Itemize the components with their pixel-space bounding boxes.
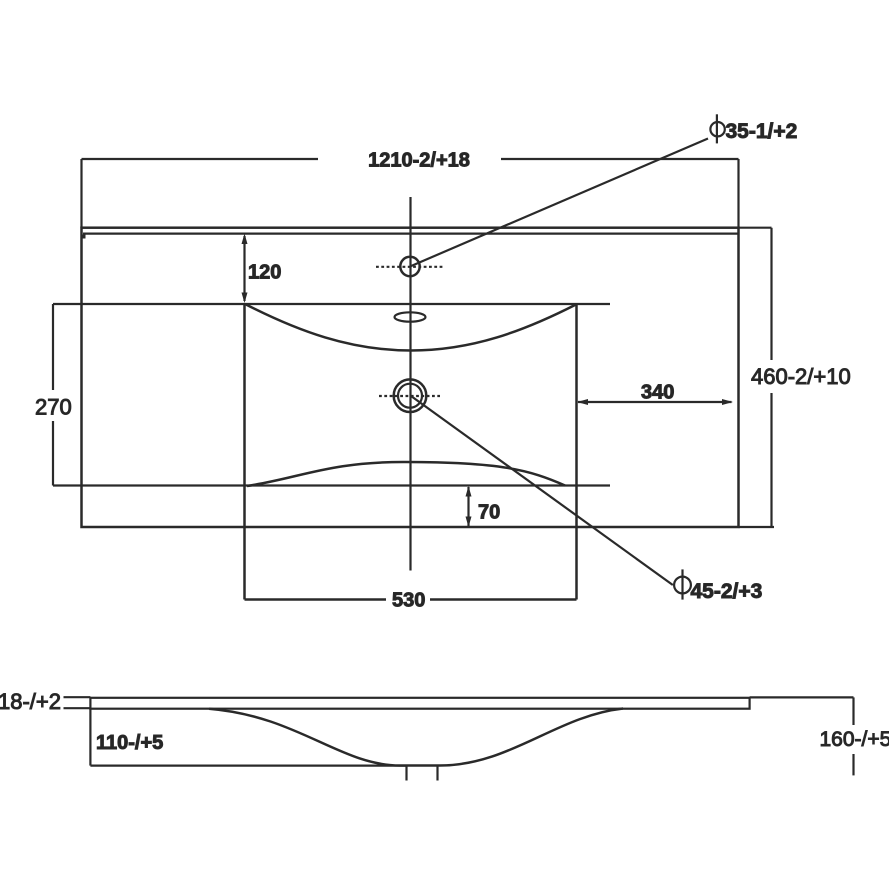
arrow down 70 — [466, 517, 472, 528]
dimension 270 line — [52, 304, 54, 486]
faucet dashed centerline — [376, 266, 443, 268]
svg-text:120: 120 — [248, 262, 281, 284]
arrow up 120 — [242, 234, 248, 245]
dimension 460 bracket — [739, 228, 775, 527]
origin dot left — [82, 235, 86, 239]
dimension 70 line — [467, 487, 469, 526]
basin top wave curve — [246, 305, 576, 351]
svg-text:35-1/+2: 35-1/+2 — [726, 120, 798, 143]
basin bottom straight line / extension — [53, 484, 610, 486]
leader lines for 18 thickness — [64, 696, 91, 698]
phi symbol 45 — [674, 577, 691, 594]
svg-text:270: 270 — [35, 395, 72, 420]
drain hole inner circle — [398, 384, 422, 408]
side view bottom line — [90, 764, 406, 766]
side view slab rectangle — [90, 698, 749, 709]
svg-text:45-2/+3: 45-2/+3 — [691, 580, 763, 603]
drain stub tick right — [436, 766, 438, 781]
svg-text:340: 340 — [641, 381, 674, 403]
svg-text:460-2/+10: 460-2/+10 — [751, 364, 851, 389]
counter front edge second line — [83, 233, 739, 235]
arrow up 70 — [466, 486, 472, 497]
faucet hole circle — [400, 257, 419, 276]
side view left skirt vertical — [89, 709, 91, 766]
svg-text:70: 70 — [478, 501, 500, 523]
leader line to drain label — [411, 396, 673, 585]
dimension 340 line — [578, 401, 732, 403]
svg-text:1210-2/+18: 1210-2/+18 — [368, 149, 470, 171]
arrow right 340 — [722, 399, 733, 405]
drain hole outer circle — [394, 379, 427, 412]
phi symbol 35 — [710, 122, 724, 136]
arrow left 340 — [577, 399, 588, 405]
drain dashed centerline — [379, 395, 440, 397]
drain stub tick left — [405, 766, 407, 781]
svg-text:530: 530 — [392, 589, 425, 611]
leader line to faucet label — [410, 139, 708, 267]
overflow slot ellipse — [395, 312, 426, 321]
arrow down 120 — [242, 293, 248, 304]
svg-text:110-/+5: 110-/+5 — [96, 732, 163, 754]
dimension 120 line — [243, 236, 245, 301]
svg-text:18-/+2: 18-/+2 — [0, 689, 61, 714]
basin top line / extension — [53, 303, 610, 305]
side view bowl curve — [209, 709, 623, 766]
basin bottom wave curve — [247, 462, 565, 486]
dimension 160 bracket — [750, 697, 854, 775]
counter outline (top view outer rectangle) — [82, 228, 739, 527]
basin box (inner rectangle) — [245, 304, 577, 600]
svg-text:160-/+5: 160-/+5 — [820, 728, 889, 751]
dimension 1210 bracket line — [82, 159, 739, 228]
faucet centerline — [409, 197, 411, 571]
